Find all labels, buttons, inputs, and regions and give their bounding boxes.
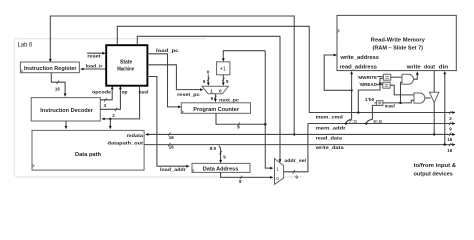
wire read_address riser	[351, 73, 353, 91]
svg-text:+1: +1	[220, 66, 226, 72]
svg-text:`MREAD: `MREAD	[359, 82, 377, 87]
svg-text:load_pc: load_pc	[156, 48, 179, 53]
svg-text:to/from input &: to/from input &	[414, 163, 457, 169]
clock wedge RAM	[337, 29, 339, 33]
junction read_data tap	[293, 133, 295, 135]
decoder ID	[31, 98, 100, 121]
wire reset input	[87, 52, 103, 54]
svg-text:16: 16	[55, 86, 60, 91]
svg-text:write_address: write_address	[339, 55, 379, 61]
svg-text:datapath_out: datapath_out	[108, 140, 144, 145]
wire mux output next_pc	[214, 94, 216, 101]
wire read_data / mdata bus	[148, 133, 453, 135]
tri-state buffer	[430, 92, 439, 102]
svg-text:1’b0: 1’b0	[365, 97, 375, 102]
wire IR output 16	[51, 73, 65, 96]
svg-text:addr_sel: addr_sel	[284, 158, 306, 163]
wire MREAD stub	[377, 84, 383, 86]
wire nsel drop to datapath	[109, 119, 111, 128]
junction write_address branch	[350, 89, 352, 91]
svg-text:reset: reset	[87, 54, 101, 59]
svg-text:Data Address: Data Address	[203, 166, 238, 172]
wire addr mux output to mem_addr	[284, 124, 308, 172]
svg-text:next_pc: next_pc	[219, 98, 239, 103]
mux pc_source trapezoid	[202, 86, 228, 94]
wire pc feedback into +1	[223, 51, 265, 61]
svg-text:(RAM – Slide Set 7): (RAM – Slide Set 7)	[373, 46, 424, 52]
wire din from write_data	[444, 73, 446, 145]
wire dout	[433, 71, 435, 93]
wire comparator write to AND1	[391, 76, 402, 78]
svg-text:read_data: read_data	[316, 136, 343, 141]
wire comparator read to AND2	[390, 85, 414, 95]
svg-text:Instruction Decoder: Instruction Decoder	[40, 108, 93, 114]
svg-text:msel: msel	[385, 103, 395, 108]
mux addr_sel	[275, 159, 284, 185]
svg-text:1: 1	[276, 166, 279, 171]
wire addr_sel from FSM	[137, 36, 280, 160]
svg-text:Machine: Machine	[117, 66, 134, 72]
wire 8:0 tap into Data Address	[219, 146, 221, 162]
svg-text:16: 16	[447, 137, 452, 142]
wire load_addr	[147, 77, 187, 167]
wire mem_addr 7:0 tap to addresses	[345, 122, 347, 124]
svg-text:mem_addr: mem_addr	[316, 126, 346, 131]
wire PC output	[216, 113, 265, 124]
svg-text:output devices: output devices	[414, 172, 453, 178]
wire load_ir	[82, 68, 106, 70]
svg-text:mdata: mdata	[127, 133, 144, 138]
svg-text:16: 16	[447, 148, 452, 153]
svg-text:7:0: 7:0	[348, 119, 357, 124]
svg-text:nsel: nsel	[139, 90, 149, 95]
register Program Counter	[181, 103, 250, 114]
junction PC feedback	[264, 123, 267, 126]
svg-text:State: State	[120, 59, 132, 65]
svg-text:16: 16	[169, 135, 174, 140]
state machine U_FSM	[106, 45, 147, 85]
svg-text:`MWRITE: `MWRITE	[357, 75, 377, 80]
svg-text:0: 0	[276, 176, 279, 181]
svg-text:8:8: 8:8	[373, 119, 382, 124]
comparator eq read	[383, 82, 390, 88]
wire write_address branch	[324, 55, 351, 90]
svg-text:Lab 6: Lab 6	[18, 43, 34, 49]
wire MWRITE stub	[377, 76, 383, 78]
svg-text:Program Counter: Program Counter	[193, 107, 239, 113]
memory RAM	[337, 15, 456, 70]
wire mem_cmd riser to comparators	[357, 111, 359, 113]
wire reset_pc	[147, 65, 201, 90]
wire op ID to FSM	[100, 87, 120, 109]
svg-text:0: 0	[219, 88, 222, 93]
wire tri-state out to read_data	[433, 103, 435, 135]
svg-text:Data path: Data path	[75, 152, 102, 158]
svg-text:load_addr: load_addr	[160, 167, 186, 172]
wire Data Address output	[221, 172, 272, 177]
wire AND1 out to write pin	[414, 73, 418, 79]
gate AND2 read enable	[414, 93, 425, 103]
svg-text:load_ir: load_ir	[86, 63, 103, 68]
wire msel net	[383, 100, 414, 103]
svg-text:op: op	[122, 89, 128, 94]
svg-text:write_data: write_data	[314, 145, 344, 150]
slash IR out	[57, 81, 59, 84]
svg-text:mem_cmd: mem_cmd	[316, 115, 343, 120]
comparator eq msel	[377, 101, 383, 106]
svg-text:1: 1	[210, 88, 213, 93]
register IR	[20, 62, 79, 73]
svg-text:reset_pc: reset_pc	[177, 92, 200, 97]
svg-text:din: din	[439, 65, 449, 71]
svg-text:0: 0	[207, 69, 210, 74]
frame Lab 6 boundary	[14, 39, 302, 177]
clock wedge IR	[20, 70, 22, 73]
svg-text:dout: dout	[424, 65, 435, 71]
wire opcode ID to FSM	[100, 87, 112, 100]
wire write_data / datapath_out bus	[144, 144, 452, 146]
wire 1'b0 stub	[374, 102, 376, 104]
wire read_data to Instruction Register (mdata)	[50, 16, 294, 134]
datapath box	[32, 130, 144, 170]
svg-text:opcode: opcode	[92, 89, 111, 94]
wire nsel FSM to ID	[103, 86, 139, 119]
junction nsel	[109, 118, 111, 120]
wire +1 output	[222, 75, 224, 84]
comparator eq write	[383, 74, 390, 80]
gate AND1 write enable	[402, 74, 413, 84]
wire ID to datapath	[65, 121, 67, 128]
wire load_pc	[147, 54, 179, 107]
wire feedback vertical to addr mux	[265, 51, 271, 168]
bus end arrows and widths	[452, 111, 455, 114]
wire mem_addr 8:8 tap	[365, 122, 367, 124]
svg-text:16: 16	[169, 144, 174, 149]
svg-text:Read-Write Memory: Read-Write Memory	[371, 37, 426, 43]
wire msel to AND1	[401, 82, 403, 103]
wire mem_addr bus	[308, 123, 452, 125]
svg-text:write: write	[406, 65, 421, 71]
svg-text:Instruction Register: Instruction Register	[24, 66, 77, 72]
adder +1	[217, 62, 230, 75]
register Data Address	[192, 163, 250, 172]
wire AND2 out to tri-state	[425, 97, 431, 99]
svg-text:read_address: read_address	[340, 65, 378, 71]
wire mem_cmd from FSM	[117, 26, 452, 112]
svg-text:8:0: 8:0	[210, 146, 217, 151]
